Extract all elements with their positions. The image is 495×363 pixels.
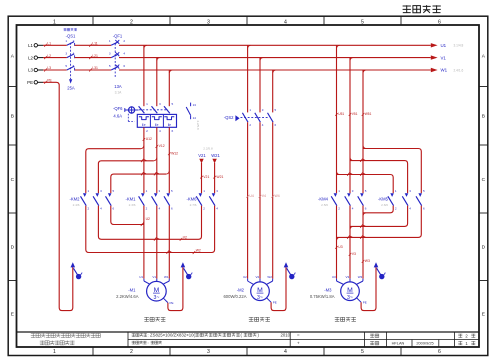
svg-text:-QS2: -QS2: [224, 115, 234, 120]
wire drop L3 to KM4: [362, 70, 372, 193]
svg-text:-KM1: -KM1: [125, 196, 136, 201]
svg-text:-QF1: -QF1: [113, 34, 123, 39]
wire branch W to KM5 pole3: [363, 149, 421, 194]
svg-text:W3: W3: [358, 275, 363, 279]
svg-text:V3: V3: [352, 252, 356, 256]
svg-text:U12: U12: [146, 137, 152, 141]
svg-text:W2: W2: [267, 275, 272, 279]
svg-text:1: 1: [53, 19, 56, 25]
svg-text:C: C: [11, 177, 15, 183]
svg-text::: :: [148, 340, 149, 345]
wire U3 to M3: [335, 206, 343, 279]
wire V3 to M3: [349, 206, 356, 279]
svg-text:U3: U3: [338, 245, 342, 249]
svg-text:E: E: [11, 312, 14, 318]
svg-text:L2: L2: [47, 54, 51, 58]
caption cooling pump motor: [249, 317, 270, 321]
wire drop L2 to KM4: [349, 58, 358, 193]
svg-text:V1: V1: [152, 275, 156, 279]
switch QS2: [224, 108, 277, 127]
svg-text:PE: PE: [169, 301, 173, 305]
svg-text:14: 14: [193, 116, 197, 120]
svg-text:V4: V4: [262, 194, 266, 198]
wire W12 QF6 to KM1: [166, 127, 178, 193]
arrow W1: [431, 68, 464, 73]
wire to M1 terminal V: [156, 206, 158, 279]
svg-text:ZS825×100/ZX832×10(: ZS825×100/ZX832×10(: [150, 333, 195, 338]
svg-text:C: C: [482, 177, 486, 183]
title block company name: [31, 333, 101, 345]
svg-text:L3: L3: [47, 66, 51, 70]
svg-text:13A: 13A: [114, 84, 122, 89]
title block grid: [17, 332, 480, 347]
svg-text:-QF6: -QF6: [113, 106, 123, 111]
svg-text:1: 1: [109, 39, 111, 43]
wire KM5 pole3 to U3: [337, 206, 422, 241]
input terminal L1: [28, 43, 43, 48]
wire drop L3 to QF6: [168, 70, 170, 106]
svg-text:1: 1: [53, 349, 56, 355]
svg-text:4: 4: [123, 51, 125, 55]
svg-text:2: 2: [130, 349, 133, 355]
svg-text:5: 5: [172, 102, 174, 106]
svg-text:V21: V21: [203, 175, 209, 179]
motor protection breaker QF6: [113, 102, 177, 133]
svg-text:2010: 2010: [281, 333, 291, 338]
wire to M1 terminal U: [143, 206, 145, 279]
wire KM5 pole1 to W3: [363, 206, 393, 216]
svg-text:3: 3: [109, 51, 111, 55]
contactor KM6 main contacts: [186, 189, 218, 211]
wire drop L3 to QS2: [272, 70, 274, 112]
svg-text:2.7/6: 2.7/6: [190, 203, 197, 207]
svg-text:600W/0.22A: 600W/0.22A: [223, 294, 246, 299]
wire drop L1 to KM4: [335, 45, 344, 193]
svg-text:W4: W4: [275, 194, 280, 198]
svg-text:U2: U2: [243, 275, 247, 279]
input terminal PE: [27, 80, 43, 85]
svg-text:4.6A: 4.6A: [113, 114, 122, 119]
svg-text:1: 1: [146, 102, 148, 106]
wire L1 to QS1: [43, 42, 67, 47]
svg-text:V3: V3: [346, 275, 350, 279]
wire V4 to M2: [259, 122, 266, 278]
wire drop L1 to QF6: [143, 45, 145, 106]
motor M2: [223, 275, 276, 305]
svg-text:3.1/4.8: 3.1/4.8: [454, 44, 464, 48]
wire U12 QF6 to KM1: [141, 127, 152, 193]
svg-text:PE: PE: [363, 301, 367, 305]
wire L2 bus: [119, 58, 431, 61]
svg-text:PE: PE: [27, 80, 33, 85]
earth point M3: [374, 262, 386, 279]
svg-text:3: 3: [207, 349, 210, 355]
svg-text:L11: L11: [92, 42, 98, 46]
svg-text:3.1A: 3.1A: [115, 90, 123, 94]
svg-text:1: 1: [65, 39, 67, 43]
svg-text:6: 6: [438, 349, 441, 355]
arrow U1: [431, 43, 464, 48]
svg-text:-M2: -M2: [237, 288, 245, 293]
svg-text:25A: 25A: [67, 86, 75, 91]
svg-text:0.75KW/1.8A: 0.75KW/1.8A: [310, 294, 335, 299]
svg-text:2009/9/25: 2009/9/25: [416, 341, 433, 346]
svg-text:-KM6: -KM6: [186, 196, 197, 201]
svg-text:W3: W3: [365, 259, 370, 263]
motor M1: [116, 275, 173, 305]
input terminal L3: [28, 68, 43, 73]
svg-text:2.4/1.6: 2.4/1.6: [454, 68, 464, 72]
svg-text:-KM2: -KM2: [69, 196, 80, 201]
svg-text:2: 2: [73, 39, 75, 43]
svg-text:-M1: -M1: [128, 288, 136, 293]
svg-text:2.4/6: 2.4/6: [73, 203, 80, 207]
svg-text:W12: W12: [171, 151, 178, 155]
svg-text:B: B: [482, 114, 485, 120]
auxiliary contact QF6 13-14: [186, 103, 200, 130]
svg-text:3~: 3~: [153, 295, 159, 301]
svg-text:2.2/5.8: 2.2/5.8: [196, 121, 200, 131]
svg-text:2: 2: [146, 129, 148, 133]
svg-text:2: 2: [130, 19, 133, 25]
wire U2 KM2 pole3 to M1-U: [111, 206, 150, 226]
wire L1 bus: [119, 45, 431, 48]
svg-text:U3: U3: [332, 275, 336, 279]
svg-text:I>: I>: [168, 123, 171, 127]
svg-text:V2: V2: [183, 236, 187, 240]
wire drop L1 to QS2: [247, 45, 249, 112]
svg-text:6: 6: [123, 64, 125, 68]
contactor KM2 main contacts: [69, 189, 114, 211]
wire V12 QF6 to KM1: [154, 127, 165, 193]
svg-text:V51: V51: [352, 112, 358, 116]
svg-text:W1: W1: [164, 275, 169, 279]
wire L2 to QS1: [43, 54, 67, 59]
svg-text:2.3/6: 2.3/6: [129, 203, 136, 207]
svg-text:2.5/6: 2.5/6: [321, 203, 328, 207]
svg-text:V2: V2: [256, 275, 260, 279]
wire U4 to M2: [246, 122, 254, 278]
title block fields: [297, 333, 475, 346]
svg-text:I>: I>: [142, 123, 145, 127]
svg-text:L2: L2: [28, 55, 33, 60]
title block project description line: [132, 333, 291, 338]
svg-text:W21: W21: [216, 175, 223, 179]
input terminal L2: [28, 55, 43, 60]
svg-text:W2: W2: [196, 249, 201, 253]
svg-text:HFLAN: HFLAN: [392, 341, 405, 346]
svg-text:=: =: [297, 333, 300, 338]
svg-text:6: 6: [73, 64, 75, 68]
wire to M1 terminal W: [168, 206, 170, 279]
svg-text:3~: 3~: [257, 295, 263, 301]
svg-text:2: 2: [123, 39, 125, 43]
svg-text:E: E: [482, 312, 485, 318]
svg-text:U4: U4: [249, 194, 253, 198]
disconnect switch QS1: [64, 28, 77, 90]
svg-text:5: 5: [109, 64, 111, 68]
svg-text::: :: [148, 333, 149, 338]
wire L3 bus: [119, 70, 431, 73]
svg-text:U51: U51: [338, 112, 344, 116]
svg-text:V12: V12: [159, 144, 165, 148]
svg-text:3: 3: [65, 51, 67, 55]
svg-text:W21: W21: [211, 153, 220, 158]
contactor KM4 main contacts: [318, 189, 367, 211]
svg-text:B: B: [11, 114, 14, 120]
svg-text:6: 6: [172, 129, 174, 133]
svg-text:6: 6: [438, 19, 441, 25]
svg-text:5: 5: [65, 64, 67, 68]
earth point PE: [71, 262, 83, 279]
wire KM5 pole2 to V3: [350, 206, 408, 230]
svg-text:4: 4: [284, 349, 287, 355]
svg-text:4: 4: [73, 51, 75, 55]
wire branch U to KM5 pole1: [337, 173, 393, 193]
svg-text:+: +: [297, 341, 300, 346]
svg-text:-M3: -M3: [324, 288, 332, 293]
wire W4 to M2: [271, 122, 279, 278]
motor M2 PE wire: [271, 267, 286, 311]
svg-text:5: 5: [361, 19, 364, 25]
motor M1 PE wire: [168, 267, 183, 311]
wire W2 KM2 pole1 to KM6 pole2: [86, 206, 215, 254]
earth point M2: [284, 262, 296, 279]
arrow V1: [431, 55, 447, 60]
svg-text:-KM5: -KM5: [378, 196, 389, 201]
caption lifting motor: [335, 317, 356, 321]
svg-text:D: D: [11, 245, 15, 251]
motor M3 PE wire: [361, 267, 376, 311]
contactor KM5 main contacts: [378, 189, 425, 211]
wire branch to KM2 pole2: [98, 159, 153, 193]
earth point M1: [181, 262, 193, 279]
svg-text:U1: U1: [441, 43, 447, 48]
svg-text:W1: W1: [441, 68, 448, 73]
svg-text:3~: 3~: [347, 295, 353, 301]
svg-text:L21: L21: [92, 54, 98, 58]
svg-text:13: 13: [193, 103, 197, 107]
svg-text:L3: L3: [28, 68, 33, 73]
svg-text:4: 4: [159, 129, 161, 133]
svg-text:3: 3: [207, 19, 210, 25]
svg-text:PE: PE: [273, 301, 277, 305]
wire drop L2 to QF6: [156, 58, 158, 107]
svg-text:L1: L1: [28, 43, 33, 48]
title block function description line: [132, 340, 162, 345]
source arrows V21 W21: [198, 147, 223, 194]
wire drop L2 to QS2: [259, 58, 261, 113]
wire L11: [75, 42, 112, 47]
svg-text:V1: V1: [441, 55, 447, 60]
wire branch to KM2 pole3: [111, 172, 167, 193]
wire L31: [75, 66, 112, 71]
motor M3: [310, 275, 367, 305]
wire L21: [75, 54, 112, 59]
svg-text:U1: U1: [139, 275, 143, 279]
svg-text:V21: V21: [198, 153, 206, 158]
svg-text:4: 4: [284, 19, 287, 25]
caption main spindle motor: [144, 317, 165, 321]
wire W3 to M3: [362, 206, 370, 279]
svg-text:-QS1: -QS1: [66, 34, 76, 39]
wire branch to KM2 pole1: [86, 149, 141, 193]
svg-text:L31: L31: [92, 66, 98, 70]
svg-text:5: 5: [361, 349, 364, 355]
sheet title (main spindle motor): [403, 5, 441, 13]
svg-text:-KM4: -KM4: [318, 196, 329, 201]
wire L3 to QS1: [43, 66, 67, 71]
svg-text:D: D: [482, 245, 486, 251]
wire branch V to KM5 pole2: [350, 159, 407, 193]
wire PE riser: [43, 79, 73, 311]
circuit breaker QF1: [109, 34, 126, 95]
wire V2 KM2 pole2 to KM6 pole1: [98, 206, 201, 241]
svg-text:2.6/6: 2.6/6: [381, 203, 388, 207]
svg-text:W51: W51: [365, 112, 372, 116]
svg-text:I>: I>: [155, 123, 158, 127]
svg-text:2.2/5.8: 2.2/5.8: [203, 147, 213, 151]
svg-text:3: 3: [159, 102, 161, 106]
svg-text:2.2KW/4.6A: 2.2KW/4.6A: [116, 294, 139, 299]
contactor KM1 main contacts: [125, 189, 173, 211]
svg-text:L1: L1: [47, 42, 51, 46]
svg-text:U2: U2: [146, 217, 150, 221]
